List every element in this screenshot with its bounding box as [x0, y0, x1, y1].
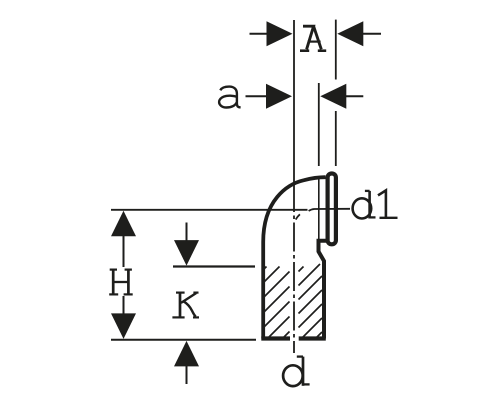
- arrowhead a right: [320, 84, 346, 109]
- arrowhead a left: [266, 84, 292, 109]
- H dimension stem upper: [123, 236, 125, 267]
- arrowhead A left: [267, 21, 293, 46]
- label H: [109, 270, 133, 295]
- dimension line A left tail: [250, 33, 268, 35]
- centerline of vertical pipe (dash-dot, through body to d): [293, 183, 295, 353]
- hatching left region: [265, 267, 290, 338]
- dimension line a right tail: [345, 95, 363, 97]
- K top reference line: [173, 265, 255, 267]
- pipe body right edge with step below flange: [319, 241, 328, 339]
- K dimension: up arrowhead below bottom line: [174, 341, 199, 367]
- bottom reference line: [111, 339, 256, 341]
- pipe body bottom edge left segment: [261, 336, 290, 340]
- outlet centerline / d1 reference line (left segment): [111, 209, 308, 211]
- K dimension: down arrowhead at K line: [174, 240, 199, 266]
- dimension line A right tail: [362, 33, 381, 35]
- extension line a (pipe end, x=318.8): [318, 83, 320, 166]
- extension line A right (flange face, x=335.8) upper segment: [335, 20, 337, 80]
- pipe body bottom edge right segment: [299, 336, 326, 340]
- label a: [219, 87, 241, 108]
- label d1: [353, 190, 398, 218]
- arrowhead A right: [337, 21, 363, 46]
- H dimension: down arrowhead at bottom line: [111, 313, 136, 339]
- dimension line a left tail: [246, 95, 268, 97]
- gasket/flange rounded profile: [328, 174, 336, 245]
- K dimension stem upper (free end): [186, 223, 188, 244]
- H dimension stem lower: [123, 296, 125, 314]
- extension line A right (flange face) lower segment: [335, 111, 337, 166]
- extension line centerline top (vertical pipe centerline, upper solid part): [293, 20, 295, 183]
- outlet centerline right segment with tangent curve to d1: [309, 209, 350, 211]
- label K: [172, 293, 199, 318]
- pipe body outline: left edge + outer bend arc + top edge: [263, 177, 325, 338]
- label d (bottom): [283, 357, 310, 387]
- pipe end edge (thin, at gasket): [318, 179, 320, 239]
- hatching right region: [299, 264, 323, 338]
- label A: [300, 26, 326, 51]
- K dimension stem below: [186, 365, 188, 384]
- bend centerline arc dash: [296, 214, 300, 219]
- H dimension: up arrowhead at top line: [111, 211, 136, 237]
